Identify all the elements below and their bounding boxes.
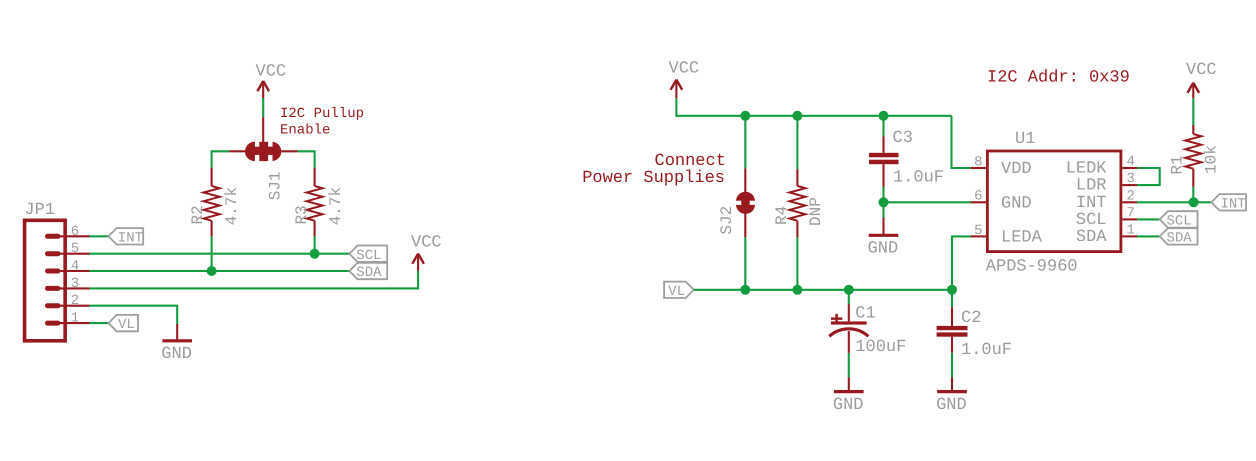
net flag INT: [109, 228, 144, 244]
net flag INT (right): [1211, 194, 1246, 210]
net flag SCL (right): [1160, 211, 1198, 227]
net flag SDA (right): [1160, 228, 1198, 244]
wire INT net: [1137, 201, 1211, 203]
ground GND (JP1 pin2): [162, 339, 192, 342]
ground GND (C2): [937, 390, 967, 393]
junction rail/C1: [844, 285, 854, 295]
svg-text:4.7k: 4.7k: [327, 187, 345, 225]
svg-text:VCC: VCC: [669, 59, 700, 78]
power symbol VCC (pin3): [417, 254, 419, 271]
svg-text:8: 8: [974, 154, 982, 170]
svg-text:Connect: Connect: [655, 152, 726, 171]
JP1 pin 5: [48, 251, 59, 256]
svg-text:VCC: VCC: [256, 62, 287, 81]
net flag VL: [109, 315, 139, 331]
svg-text:VL: VL: [118, 317, 135, 333]
plus sign (C1): [831, 314, 842, 324]
JP1 pin 3: [48, 286, 59, 291]
svg-text:7: 7: [1127, 205, 1135, 221]
svg-text:4.7k: 4.7k: [223, 187, 241, 225]
wire rail to U1 LEDA: [952, 236, 971, 289]
svg-text:6: 6: [974, 189, 982, 205]
wire pin3 VCC net: [90, 271, 419, 289]
solder jumper SJ2: [744, 116, 746, 169]
svg-text:SDA: SDA: [1076, 228, 1107, 247]
junction top/R4: [792, 111, 802, 121]
wire VCC to SJ1: [262, 98, 264, 117]
ground GND (C1): [834, 390, 864, 393]
power symbol VCC (net to SJ1 top): [257, 81, 269, 91]
svg-text:4: 4: [71, 259, 79, 275]
JP1 pin 4: [48, 269, 59, 274]
svg-text:SDA: SDA: [356, 265, 382, 281]
U1 pin 6 GND: [971, 201, 986, 203]
U1 pin 8 VDD: [971, 167, 986, 169]
svg-text:LDR: LDR: [1076, 177, 1107, 196]
svg-text:5: 5: [974, 223, 982, 239]
svg-text:R1: R1: [1169, 155, 1187, 174]
svg-text:VCC: VCC: [1186, 61, 1217, 80]
wire pin4 SDA net: [90, 270, 350, 272]
capacitor C1 100uF polarized: [848, 290, 850, 304]
junction rail/C2/LEDA: [947, 285, 957, 295]
svg-text:1: 1: [1127, 222, 1135, 238]
svg-text:VCC: VCC: [411, 234, 442, 253]
wire pin7 to SCL flag: [1137, 218, 1160, 220]
resistor R4 DNP: [796, 116, 798, 169]
wire LEDK to LDR loop: [1137, 168, 1160, 185]
junction top/C3: [879, 111, 889, 121]
U1 pin 3 LDR: [1122, 184, 1137, 186]
wire pin2 to GND: [90, 306, 178, 324]
wire SJ1 to R3: [298, 151, 315, 168]
wire VL bottom rail: [694, 289, 952, 291]
net flag SDA: [349, 263, 387, 279]
svg-text:10k: 10k: [1203, 145, 1221, 174]
svg-text:GND: GND: [161, 345, 192, 364]
U1 pin 4 LEDK: [1122, 167, 1137, 169]
svg-text:APDS-9960: APDS-9960: [986, 257, 1078, 276]
svg-text:GND: GND: [936, 396, 967, 415]
junction rail/R4: [792, 285, 802, 295]
net flag SCL: [349, 246, 387, 262]
junction R2/SDA: [207, 266, 217, 276]
svg-text:1.0uF: 1.0uF: [893, 169, 944, 188]
curved plate (C1): [829, 329, 868, 337]
svg-text:1.0uF: 1.0uF: [961, 341, 1012, 360]
wire VCC to U1 VDD: [952, 116, 971, 168]
junction R3/SCL: [310, 249, 320, 259]
svg-text:VDD: VDD: [1001, 160, 1032, 179]
capacitor C2 1.0uF: [951, 290, 953, 308]
junction rail/SJ2: [740, 285, 750, 295]
U1 pin 1 SDA: [1122, 235, 1137, 237]
wire C3 to GND pin6: [884, 187, 971, 203]
svg-text:5: 5: [71, 241, 79, 257]
svg-text:4: 4: [1127, 154, 1135, 170]
svg-text:6: 6: [71, 224, 79, 240]
net flag VL (right block): [664, 282, 694, 298]
JP1 pin 6: [48, 234, 59, 239]
svg-text:INT: INT: [118, 230, 143, 246]
junction R1/INT: [1189, 197, 1199, 207]
svg-text:SCL: SCL: [1167, 214, 1192, 230]
svg-text:R3: R3: [293, 205, 311, 224]
U1 pin 2 INT: [1122, 201, 1137, 203]
svg-text:I2C Pullup: I2C Pullup: [280, 106, 364, 122]
svg-text:SJ1: SJ1: [266, 171, 284, 200]
wire pin1 to VL flag: [90, 322, 109, 324]
ground GND (C3): [869, 234, 899, 237]
svg-text:C1: C1: [855, 304, 875, 323]
resistor R1 10k: [1188, 83, 1200, 93]
svg-text:GND: GND: [868, 240, 899, 259]
resistor R2 4.7k: [211, 168, 213, 186]
junction C3/GND net: [879, 197, 889, 207]
svg-text:2: 2: [71, 293, 79, 309]
junction top/SJ2: [740, 111, 750, 121]
svg-text:100uF: 100uF: [855, 338, 906, 357]
svg-text:INT: INT: [1221, 196, 1246, 212]
svg-text:I2C Addr: 0x39: I2C Addr: 0x39: [987, 68, 1130, 87]
wire R3 to SCL net: [314, 236, 316, 253]
U1 pin 5 LEDA: [971, 235, 986, 237]
svg-text:3: 3: [71, 276, 79, 292]
wire pin1 to SDA flag: [1137, 235, 1160, 237]
wire SJ1 to R2: [212, 151, 230, 168]
capacitor C3 1.0uF: [882, 116, 884, 137]
svg-text:U1: U1: [1015, 130, 1035, 149]
JP1 pin 1: [48, 321, 59, 326]
svg-text:SCL: SCL: [356, 248, 381, 264]
svg-text:C3: C3: [893, 129, 913, 148]
svg-text:C2: C2: [961, 309, 981, 328]
svg-text:3: 3: [1127, 171, 1135, 187]
wire pin5 SCL net: [90, 253, 350, 255]
U1 pin 7 SCL: [1122, 218, 1137, 220]
solder jumper SJ1: [245, 142, 281, 161]
svg-text:GND: GND: [833, 396, 864, 415]
power symbol VCC (top rail): [671, 80, 683, 90]
svg-text:Power Supplies: Power Supplies: [582, 169, 725, 188]
wire VCC top rail: [676, 98, 951, 116]
svg-text:2: 2: [1127, 188, 1135, 204]
svg-text:R2: R2: [189, 205, 207, 224]
svg-text:GND: GND: [1001, 194, 1032, 213]
svg-text:Enable: Enable: [280, 122, 330, 138]
svg-text:JP1: JP1: [24, 201, 55, 220]
svg-text:1: 1: [71, 311, 79, 327]
JP1 pin 2: [48, 303, 59, 308]
wire R2 to SDA net: [211, 236, 213, 271]
svg-text:DNP: DNP: [807, 197, 825, 226]
svg-text:LEDA: LEDA: [1001, 228, 1043, 247]
svg-text:SDA: SDA: [1167, 231, 1193, 247]
wire pin6 to INT flag: [90, 235, 109, 237]
svg-text:SJ2: SJ2: [718, 206, 736, 235]
resistor R3 4.7k: [314, 168, 316, 186]
svg-text:R4: R4: [773, 206, 791, 225]
svg-text:VL: VL: [668, 284, 685, 300]
